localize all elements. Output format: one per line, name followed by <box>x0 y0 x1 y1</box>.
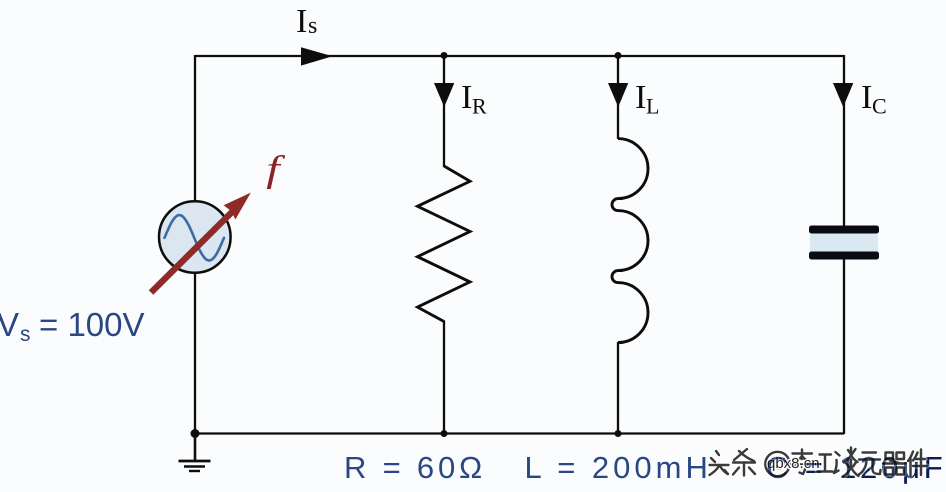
label C = 120uF <box>766 450 946 485</box>
svg-text:I: I <box>861 79 872 116</box>
label IC <box>861 79 887 119</box>
junction: bottom of L <box>615 430 622 437</box>
svg-text:C = 120μF: C = 120μF <box>766 450 946 485</box>
svg-text:V: V <box>0 306 19 343</box>
svg-text:C: C <box>872 94 887 119</box>
wire: resistor branch bottom lead <box>443 321 445 435</box>
current arrow Is <box>301 47 333 65</box>
junction: bottom of R <box>441 430 448 437</box>
inductor L <box>612 139 648 343</box>
wire: inductor branch top lead <box>617 55 619 139</box>
resistor R <box>418 166 471 322</box>
wire: capacitor branch vertical <box>843 55 845 434</box>
label Vs = 100V <box>0 306 145 346</box>
variable frequency arrow <box>151 193 251 293</box>
svg-text:R: R <box>472 94 487 119</box>
svg-text:s: s <box>308 13 317 39</box>
current arrow IR <box>434 83 454 107</box>
label Is <box>296 3 317 40</box>
svg-text:I: I <box>296 3 307 40</box>
label f <box>266 149 285 190</box>
wire: inductor branch bottom lead <box>617 342 619 434</box>
junction: bottom left node <box>191 429 200 438</box>
current arrow IL <box>608 83 628 107</box>
svg-text:L = 200mH: L = 200mH <box>525 450 712 485</box>
junction: top of R <box>441 52 448 59</box>
ground <box>179 434 211 471</box>
AC source V1 <box>159 201 231 273</box>
svg-text:I: I <box>461 79 472 116</box>
watermark <box>710 448 946 486</box>
current arrow IC <box>833 83 853 107</box>
label IR <box>461 79 487 119</box>
svg-text:L: L <box>646 94 659 119</box>
wire: top bus <box>195 55 844 57</box>
wire: left vertical lower segment <box>194 271 196 435</box>
wire: left vertical upper segment <box>194 55 196 203</box>
svg-text:R = 60Ω: R = 60Ω <box>344 450 486 485</box>
label L = 200mH <box>525 450 712 485</box>
svg-text:s: s <box>20 323 31 346</box>
svg-text:I: I <box>635 79 646 116</box>
junction: top of L <box>615 52 622 59</box>
svg-text:= 100V: = 100V <box>39 306 145 343</box>
label R = 60 ohm <box>344 450 486 485</box>
label IL <box>635 79 659 119</box>
wire: bottom bus <box>195 432 844 434</box>
wire: resistor branch top lead <box>443 55 445 167</box>
capacitor C <box>809 226 879 260</box>
